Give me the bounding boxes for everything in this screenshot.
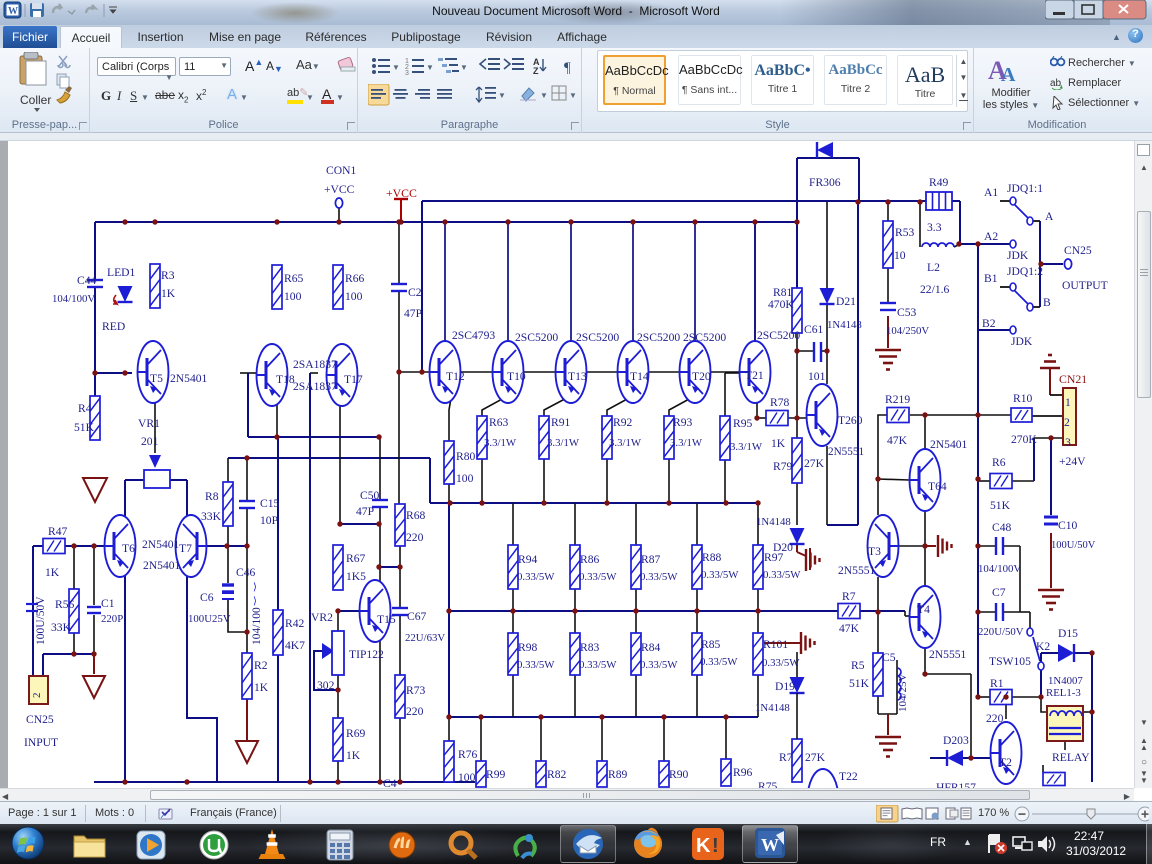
svg-text:0.33/5W: 0.33/5W: [640, 571, 678, 583]
svg-text:R8: R8: [205, 490, 219, 503]
svg-text:0.33/5W: 0.33/5W: [701, 569, 739, 581]
svg-text:R69: R69: [346, 727, 366, 740]
svg-text:0.33/5W: 0.33/5W: [579, 659, 617, 671]
svg-text:1K: 1K: [161, 287, 176, 300]
svg-text:B1: B1: [984, 272, 998, 285]
svg-text:C4: C4: [383, 777, 397, 788]
svg-text:2SC5200: 2SC5200: [515, 331, 558, 344]
svg-text:D20: D20: [773, 541, 793, 554]
svg-text:CN25: CN25: [26, 713, 54, 726]
svg-text:R87: R87: [641, 553, 661, 566]
svg-text:4K7: 4K7: [285, 639, 305, 652]
svg-text:3.3/1W: 3.3/1W: [547, 437, 580, 449]
svg-text:47K: 47K: [887, 434, 908, 447]
svg-text:R89: R89: [608, 768, 628, 781]
svg-text:T22: T22: [839, 770, 858, 783]
svg-text:A: A: [1045, 210, 1054, 223]
svg-text:C44: C44: [77, 274, 97, 287]
svg-text:R1: R1: [990, 677, 1004, 690]
svg-text:104/100V: 104/100V: [52, 293, 95, 305]
svg-text:D15: D15: [1058, 627, 1078, 640]
svg-text:1N4148: 1N4148: [755, 702, 790, 714]
svg-text:R49: R49: [929, 176, 949, 189]
svg-text:22/1.6: 22/1.6: [920, 283, 950, 296]
svg-text:C5: C5: [882, 651, 896, 664]
svg-text:C6: C6: [200, 591, 214, 604]
svg-text:!: !: [712, 835, 719, 857]
svg-text:2SA1837: 2SA1837: [293, 380, 337, 393]
svg-text:▼: ▼: [426, 63, 434, 72]
svg-text:R88: R88: [702, 551, 722, 564]
svg-text:C46: C46: [236, 566, 256, 579]
svg-text:R65: R65: [284, 272, 304, 285]
svg-text:INPUT: INPUT: [24, 736, 58, 749]
svg-text:R85: R85: [701, 638, 721, 651]
svg-text:51K: 51K: [849, 677, 870, 690]
svg-text:R101: R101: [763, 638, 788, 651]
svg-text:A1: A1: [984, 186, 998, 199]
svg-text:RED: RED: [102, 320, 125, 333]
svg-text:▼: ▼: [460, 63, 468, 72]
svg-text:Coller: Coller: [20, 93, 51, 107]
svg-text:R73: R73: [406, 684, 426, 697]
svg-text:2N5551: 2N5551: [828, 446, 864, 458]
svg-text:0.33/5W: 0.33/5W: [762, 657, 800, 669]
svg-text:3.3/1W: 3.3/1W: [484, 437, 517, 449]
svg-text:R42: R42: [285, 617, 305, 630]
svg-text:R5: R5: [851, 659, 865, 672]
svg-text:R67: R67: [346, 552, 366, 565]
svg-text:¶: ¶: [564, 60, 571, 76]
svg-text:Z: Z: [533, 66, 539, 76]
svg-text:1N4148: 1N4148: [827, 319, 862, 331]
svg-text:R95: R95: [733, 417, 753, 430]
svg-text:2SC5200: 2SC5200: [576, 331, 619, 344]
svg-text:R53: R53: [895, 226, 915, 239]
svg-text:VR1: VR1: [138, 417, 160, 430]
svg-text:T12: T12: [446, 370, 465, 383]
svg-text:2N5551: 2N5551: [838, 564, 876, 577]
svg-text:R68: R68: [406, 509, 426, 522]
svg-text:R7: R7: [779, 751, 793, 764]
svg-text:B2: B2: [982, 317, 996, 330]
svg-text:D19: D19: [775, 680, 795, 693]
svg-text:33K: 33K: [51, 621, 72, 634]
svg-text:R66: R66: [345, 272, 365, 285]
svg-text:▼: ▼: [392, 63, 400, 72]
svg-text:C7: C7: [992, 586, 1006, 599]
svg-text:2N5551: 2N5551: [929, 648, 967, 661]
svg-text:R83: R83: [580, 641, 600, 654]
svg-text:C61: C61: [804, 323, 824, 336]
svg-text:K2: K2: [1036, 640, 1050, 653]
svg-text:R99: R99: [486, 768, 506, 781]
svg-text:OUTPUT: OUTPUT: [1062, 279, 1108, 292]
svg-text:100: 100: [456, 472, 474, 485]
svg-text:3: 3: [1065, 436, 1071, 449]
svg-text:T4: T4: [917, 603, 930, 616]
svg-text:R91: R91: [551, 416, 571, 429]
svg-text:T14: T14: [630, 370, 649, 383]
svg-text:▼: ▼: [498, 91, 506, 100]
svg-text:104/250V: 104/250V: [886, 325, 929, 337]
svg-text:0.33/5W: 0.33/5W: [517, 659, 555, 671]
svg-text:⟩: ⟩: [253, 596, 257, 607]
svg-text:0.33/5W: 0.33/5W: [640, 659, 678, 671]
svg-text:10P: 10P: [260, 514, 278, 527]
svg-text:104/100: 104/100: [251, 607, 263, 645]
svg-text:27K: 27K: [804, 457, 825, 470]
svg-text:220U/50V: 220U/50V: [978, 626, 1024, 638]
svg-text:1K: 1K: [45, 566, 60, 579]
svg-text:0.33/5W: 0.33/5W: [517, 571, 555, 583]
svg-text:T6: T6: [122, 542, 135, 555]
svg-text:R82: R82: [547, 768, 567, 781]
svg-text:27K: 27K: [805, 751, 826, 764]
svg-text:51K: 51K: [990, 499, 1011, 512]
svg-text:R76: R76: [458, 748, 478, 761]
svg-text:T3: T3: [868, 545, 881, 558]
svg-text:C67: C67: [407, 610, 427, 623]
svg-text:VR2: VR2: [311, 611, 333, 624]
svg-text:T21: T21: [745, 369, 764, 382]
svg-text:201: 201: [141, 435, 159, 448]
svg-text:R47: R47: [48, 525, 68, 538]
svg-text:1N4007: 1N4007: [1048, 675, 1083, 687]
svg-text:CON1: CON1: [326, 164, 356, 177]
svg-text:1K: 1K: [254, 681, 269, 694]
svg-text:R80: R80: [456, 450, 476, 463]
svg-text:3.3/1W: 3.3/1W: [609, 437, 642, 449]
svg-text:1N4148: 1N4148: [756, 516, 791, 528]
svg-text:+VCC: +VCC: [324, 183, 355, 196]
svg-text:TSW105: TSW105: [989, 655, 1031, 668]
svg-text:TIP122: TIP122: [349, 648, 384, 661]
svg-text:B: B: [1043, 296, 1051, 309]
svg-text:1K: 1K: [346, 749, 361, 762]
svg-text:D21: D21: [836, 295, 856, 308]
svg-text:▼: ▼: [569, 91, 577, 100]
svg-text:A2: A2: [984, 230, 998, 243]
svg-text:3.3: 3.3: [927, 221, 942, 234]
svg-text:302: 302: [317, 679, 335, 692]
svg-text:47K: 47K: [839, 622, 860, 635]
svg-text:R6: R6: [992, 456, 1006, 469]
svg-text:100U25V: 100U25V: [188, 613, 231, 625]
svg-text:C2: C2: [408, 286, 422, 299]
svg-text:2SA1837: 2SA1837: [293, 358, 337, 371]
svg-text:FR306: FR306: [809, 176, 841, 189]
svg-text:R75: R75: [758, 780, 778, 788]
svg-text:T7: T7: [179, 542, 192, 555]
svg-text:10: 10: [894, 249, 906, 262]
svg-text:2SC4793: 2SC4793: [452, 329, 495, 342]
svg-text:47P: 47P: [404, 307, 422, 320]
svg-text:JDK: JDK: [1011, 335, 1033, 348]
svg-text:K: K: [696, 835, 711, 857]
svg-text:3: 3: [405, 70, 409, 76]
svg-text:470K: 470K: [768, 298, 794, 311]
svg-text:+24V: +24V: [1059, 455, 1086, 468]
svg-text:0.33/5W: 0.33/5W: [763, 569, 801, 581]
svg-text:T10: T10: [507, 370, 526, 383]
svg-text:JDQ1:1: JDQ1:1: [1007, 182, 1043, 195]
svg-text:100: 100: [284, 290, 302, 303]
svg-text:T20: T20: [692, 370, 711, 383]
svg-text:C15: C15: [260, 497, 280, 510]
svg-text:W: W: [761, 835, 779, 855]
svg-text:2SC5200: 2SC5200: [637, 331, 680, 344]
svg-text:R56: R56: [55, 598, 75, 611]
svg-text:2N5401: 2N5401: [142, 538, 180, 551]
svg-text:C1: C1: [101, 597, 115, 610]
svg-text:R86: R86: [580, 553, 600, 566]
svg-text:R2: R2: [254, 659, 268, 672]
svg-text:CN21: CN21: [1059, 372, 1087, 386]
svg-text:T5: T5: [150, 372, 163, 385]
svg-text:T13: T13: [568, 370, 587, 383]
svg-text:R4: R4: [78, 402, 92, 415]
svg-text:W: W: [8, 6, 18, 17]
svg-text:R84: R84: [641, 641, 661, 654]
svg-text:1K: 1K: [771, 437, 786, 450]
svg-text:R96: R96: [733, 766, 753, 779]
svg-text:JDK: JDK: [1007, 249, 1029, 262]
svg-text:R92: R92: [613, 416, 633, 429]
svg-text:HFR157: HFR157: [936, 781, 976, 788]
svg-text:C48: C48: [992, 521, 1012, 534]
svg-text:22U/63V: 22U/63V: [405, 632, 445, 644]
svg-text:A: A: [1001, 64, 1016, 85]
svg-text:D203: D203: [943, 734, 969, 747]
svg-text:T2: T2: [999, 756, 1012, 769]
svg-text:0.33/5W: 0.33/5W: [700, 656, 738, 668]
svg-text:T15: T15: [377, 613, 396, 626]
svg-text:104/100V: 104/100V: [978, 563, 1021, 575]
svg-text:51K: 51K: [74, 421, 95, 434]
svg-text:3.3/1W: 3.3/1W: [730, 441, 763, 453]
svg-text:R7: R7: [842, 590, 856, 603]
svg-text:L2: L2: [927, 261, 940, 274]
svg-text:⟩: ⟩: [253, 582, 257, 593]
svg-text:R90: R90: [669, 768, 689, 781]
svg-text:T260: T260: [838, 414, 863, 427]
svg-text:▼: ▼: [540, 91, 548, 100]
svg-text:1: 1: [1065, 396, 1071, 409]
svg-text:LED1: LED1: [107, 266, 136, 279]
svg-text:100: 100: [458, 771, 476, 784]
svg-text:R219: R219: [885, 393, 910, 406]
svg-text:100: 100: [345, 290, 363, 303]
svg-text:R98: R98: [518, 641, 538, 654]
svg-text:R10: R10: [1013, 392, 1033, 405]
svg-text:0.33/5W: 0.33/5W: [579, 571, 617, 583]
svg-text:220: 220: [406, 531, 424, 544]
svg-text:2: 2: [1064, 416, 1070, 429]
svg-text:CN25: CN25: [1064, 244, 1092, 257]
svg-text:R79: R79: [773, 460, 793, 473]
svg-text:JDQ1:2: JDQ1:2: [1007, 265, 1043, 278]
svg-text:47P: 47P: [356, 505, 374, 518]
svg-text:101: 101: [808, 370, 826, 383]
svg-text:2SC5200: 2SC5200: [683, 331, 726, 344]
svg-text:104/25V: 104/25V: [897, 673, 909, 712]
svg-text:220P: 220P: [101, 613, 123, 625]
svg-text:RELAY: RELAY: [1052, 751, 1090, 764]
svg-text:1K5: 1K5: [346, 570, 366, 583]
svg-text:R78: R78: [770, 396, 790, 409]
svg-text:3.3/1W: 3.3/1W: [670, 437, 703, 449]
svg-text:C50: C50: [360, 489, 380, 502]
svg-text:R63: R63: [489, 416, 509, 429]
svg-text:220: 220: [986, 712, 1004, 725]
svg-text:R3: R3: [161, 269, 175, 282]
svg-text:+VCC: +VCC: [386, 186, 417, 200]
svg-text:REL1-3: REL1-3: [1046, 687, 1081, 699]
svg-text:2N5401: 2N5401: [170, 372, 208, 385]
svg-text:2SC5200: 2SC5200: [757, 329, 800, 342]
svg-text:100U/50V: 100U/50V: [1051, 540, 1096, 551]
svg-text:270K: 270K: [1011, 433, 1037, 446]
svg-text:33K: 33K: [201, 510, 222, 523]
svg-text:100U/50V: 100U/50V: [35, 596, 47, 645]
svg-text:2N5401: 2N5401: [143, 559, 181, 572]
svg-text:T64: T64: [928, 480, 947, 493]
svg-text:R94: R94: [518, 553, 538, 566]
svg-text:C10: C10: [1058, 519, 1078, 532]
svg-text:R93: R93: [673, 416, 693, 429]
svg-text:2: 2: [31, 693, 43, 699]
svg-text:C53: C53: [897, 306, 917, 319]
svg-text:220: 220: [406, 705, 424, 718]
svg-text:2N5401: 2N5401: [930, 438, 968, 451]
svg-text:T17: T17: [344, 373, 363, 386]
